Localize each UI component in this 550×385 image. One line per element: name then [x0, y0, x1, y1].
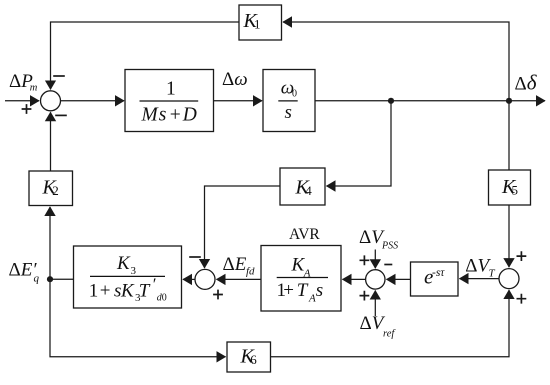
- svg-text:s: s: [285, 102, 292, 123]
- svg-text:D: D: [182, 105, 197, 126]
- svg-text:T: T: [489, 268, 496, 280]
- svg-text:3: 3: [131, 265, 137, 277]
- svg-text:ref: ref: [383, 329, 396, 340]
- svg-text:′: ′: [152, 275, 156, 294]
- svg-text:PSS: PSS: [381, 241, 398, 252]
- svg-text:T: T: [139, 281, 151, 302]
- svg-text:AVR: AVR: [289, 226, 320, 243]
- svg-text:1: 1: [254, 17, 261, 32]
- svg-text:+: +: [170, 105, 181, 126]
- svg-text:6: 6: [250, 352, 257, 367]
- svg-text:5: 5: [512, 183, 519, 198]
- svg-text:Δδ: Δδ: [515, 71, 538, 95]
- svg-text:1: 1: [89, 281, 99, 302]
- svg-text:ΔE: ΔE: [223, 254, 247, 275]
- svg-text:-sτ: -sτ: [432, 267, 445, 279]
- svg-text:K: K: [116, 253, 131, 274]
- svg-text:q: q: [34, 273, 40, 285]
- svg-text:+: +: [283, 280, 294, 301]
- svg-text:ΔV: ΔV: [360, 313, 386, 334]
- svg-text:+: +: [100, 281, 111, 302]
- svg-text:4: 4: [305, 183, 312, 198]
- svg-text:K: K: [120, 281, 135, 302]
- svg-text:m: m: [30, 83, 38, 94]
- svg-text:A: A: [308, 293, 316, 305]
- svg-text:s: s: [159, 105, 167, 126]
- svg-text:T: T: [297, 280, 309, 301]
- svg-text:fd: fd: [246, 266, 255, 278]
- svg-text:0: 0: [162, 292, 167, 303]
- svg-text:0: 0: [292, 89, 297, 100]
- svg-text:s: s: [316, 280, 323, 301]
- svg-text:1: 1: [166, 79, 176, 100]
- svg-text:M: M: [141, 105, 160, 126]
- svg-text:Δω: Δω: [222, 69, 248, 90]
- svg-text:2: 2: [52, 183, 59, 198]
- svg-text:A: A: [303, 268, 311, 280]
